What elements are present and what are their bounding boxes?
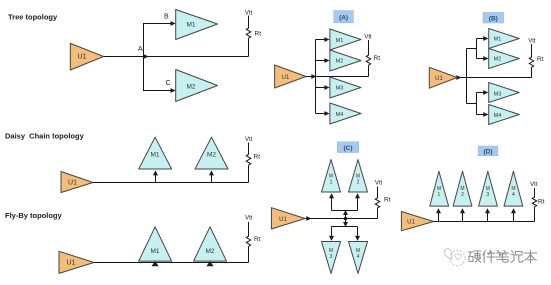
svg-text:U1: U1 — [78, 54, 87, 61]
svg-text:Vtt: Vtt — [245, 137, 253, 143]
svg-text:Vtt: Vtt — [530, 182, 538, 188]
svg-text:M4: M4 — [336, 112, 344, 118]
svg-text:4: 4 — [512, 192, 515, 198]
svg-text:Rt: Rt — [374, 55, 381, 62]
svg-text:M2: M2 — [207, 152, 216, 159]
svg-text:3: 3 — [330, 254, 333, 260]
svg-text:M4: M4 — [494, 113, 502, 119]
svg-text:U1: U1 — [67, 260, 76, 267]
svg-text:(A): (A) — [339, 14, 348, 21]
svg-text:Vtt: Vtt — [528, 39, 536, 45]
svg-text:Rt: Rt — [384, 197, 391, 204]
svg-text:1: 1 — [438, 192, 441, 198]
svg-text:2: 2 — [357, 180, 360, 186]
svg-text:M1: M1 — [186, 22, 195, 29]
svg-text:Vtt: Vtt — [245, 11, 253, 17]
svg-text:M1: M1 — [336, 38, 344, 44]
svg-text:2: 2 — [461, 192, 464, 198]
svg-text:U1: U1 — [435, 76, 443, 82]
svg-text:M1: M1 — [150, 152, 159, 159]
svg-text:M3: M3 — [494, 91, 502, 97]
svg-text:Fly-By topology: Fly-By topology — [5, 211, 62, 220]
svg-text:Vtt: Vtt — [375, 180, 383, 186]
svg-text:(C): (C) — [343, 145, 352, 152]
svg-text:Tree topology: Tree topology — [8, 13, 58, 22]
svg-text:M1: M1 — [494, 37, 502, 43]
svg-text:M3: M3 — [336, 86, 344, 92]
svg-text:Rt: Rt — [254, 236, 261, 243]
svg-text:Rt: Rt — [537, 56, 544, 63]
svg-text:Daisy Chain topology: Daisy Chain topology — [5, 132, 85, 141]
svg-text:M2: M2 — [205, 248, 214, 255]
svg-text:Vtt: Vtt — [245, 216, 253, 222]
svg-text:M1: M1 — [150, 248, 159, 255]
svg-text:M2: M2 — [494, 57, 502, 63]
svg-text:U1: U1 — [279, 217, 287, 223]
svg-text:A: A — [138, 46, 143, 53]
svg-text:Rt: Rt — [255, 31, 262, 38]
svg-text:Rt: Rt — [538, 199, 545, 206]
svg-text:4: 4 — [357, 254, 360, 260]
svg-text:3: 3 — [486, 192, 489, 198]
svg-text:Vtt: Vtt — [364, 35, 372, 41]
svg-text:Rt: Rt — [254, 154, 261, 161]
svg-text:B: B — [164, 14, 169, 21]
svg-text:U1: U1 — [282, 75, 290, 81]
svg-text:1: 1 — [330, 180, 333, 186]
svg-text:M2: M2 — [336, 59, 344, 65]
svg-text:C: C — [166, 80, 171, 87]
svg-text:(B): (B) — [489, 15, 498, 22]
svg-text:U1: U1 — [68, 180, 77, 187]
svg-text:U1: U1 — [407, 220, 415, 226]
svg-text:(D): (D) — [483, 149, 492, 156]
svg-text:M2: M2 — [186, 84, 195, 91]
